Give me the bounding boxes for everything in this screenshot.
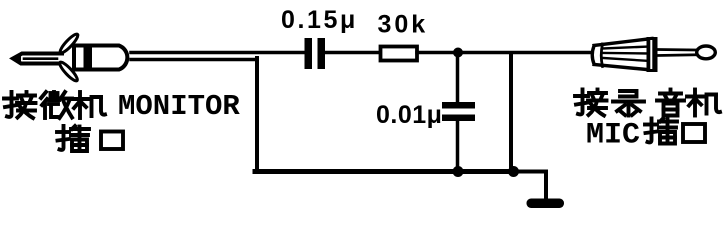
capacitor C1 plate left bbox=[305, 38, 313, 69]
wire R1 to plug P2 bbox=[417, 51, 592, 55]
resistor R1 bbox=[381, 47, 418, 61]
plug P2 cone inner line upper bbox=[603, 47, 650, 49]
wire right vertical branch bbox=[509, 54, 513, 172]
label right line1 char yin bbox=[657, 90, 684, 116]
capacitor C2 plate top bbox=[442, 102, 475, 109]
plug P2 flange bbox=[647, 37, 658, 72]
plug P1 body bbox=[74, 46, 127, 70]
svg-text:0.01μ: 0.01μ bbox=[376, 101, 442, 129]
ground bbox=[527, 199, 565, 209]
svg-text:0.15μ: 0.15μ bbox=[281, 6, 358, 34]
wire bottom rail bbox=[255, 169, 516, 174]
node junction bottom C2 bbox=[453, 166, 464, 177]
label right line1 char lu bbox=[613, 91, 644, 116]
plug P1 spring leaf upper bbox=[58, 32, 80, 55]
plug P2 cone body bbox=[592, 39, 652, 71]
plug P2 shaft bbox=[658, 50, 698, 56]
label left line1 char jie bbox=[4, 92, 36, 118]
wire to ground bbox=[513, 172, 546, 200]
label left line1 char wei bbox=[41, 92, 72, 118]
capacitor C1 plate right bbox=[318, 38, 326, 69]
svg-text:MONITOR: MONITOR bbox=[118, 90, 240, 123]
label right line1 char jie bbox=[575, 90, 607, 116]
wire sleeve vertical bbox=[255, 58, 259, 172]
plug P1 spring leaf lower bbox=[58, 60, 80, 83]
wire tip to C1 bbox=[131, 51, 305, 55]
label right line2 char kou bbox=[683, 124, 705, 142]
label left line1 char ji bbox=[72, 92, 105, 118]
plug P1 body collar bar bbox=[84, 44, 93, 71]
wire C1 to R1 bbox=[325, 51, 380, 55]
plug P1 tip bbox=[12, 53, 62, 65]
svg-text:MIC: MIC bbox=[586, 119, 640, 153]
label left line2 char cha bbox=[57, 126, 89, 151]
plug P2 tip bbox=[697, 46, 716, 59]
label right line1 char ji bbox=[687, 90, 720, 116]
node junction bottom right bbox=[508, 166, 519, 177]
svg-text:30k: 30k bbox=[378, 11, 429, 39]
node junction top bbox=[453, 48, 463, 58]
wire sleeve horizontal bbox=[131, 58, 257, 62]
label left line2 char kou bbox=[101, 132, 123, 150]
capacitor C2 plate bottom bbox=[442, 115, 475, 122]
label right line2 char cha bbox=[645, 119, 677, 144]
wire C2 bottom lead bbox=[456, 121, 460, 172]
wire C2 top lead bbox=[456, 53, 460, 103]
plug P2 collar ring bbox=[601, 44, 602, 67]
plug P2 cone inner line lower bbox=[603, 53, 650, 61]
